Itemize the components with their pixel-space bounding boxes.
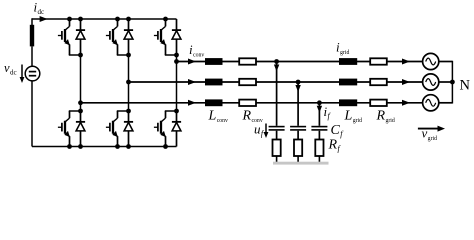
wire left rail mid segment bbox=[31, 46, 33, 66]
wire phase A vertical bbox=[80, 55, 82, 111]
arrow u_f annotation bbox=[264, 124, 269, 139]
node phase A tap bbox=[174, 59, 179, 64]
transistor lower IGBT leg C bbox=[154, 111, 166, 147]
node upper leg B midpoint bbox=[126, 53, 131, 58]
resistor R_conv phase A bbox=[239, 58, 256, 64]
wire left rail upper segment bbox=[31, 18, 33, 25]
wire branch A cap to resistor bbox=[276, 131, 278, 140]
label i_f bbox=[324, 104, 332, 121]
node upper leg A midpoint bbox=[78, 53, 83, 58]
arrow i_dc on top rail bbox=[40, 16, 48, 22]
wire branch B resistor stub bbox=[297, 156, 299, 163]
wire bottom dc rail bbox=[32, 146, 177, 148]
arrow filter current branch A bbox=[274, 65, 279, 72]
capacitor C_f branch B bbox=[290, 126, 306, 131]
capacitor C_f branch C bbox=[311, 126, 327, 131]
wire phase line C bbox=[81, 102, 423, 104]
wire top dc rail bbox=[32, 18, 177, 20]
diode lower freewheeling leg A bbox=[76, 111, 85, 147]
label L_conv bbox=[208, 109, 229, 125]
node filter branch C tap bbox=[317, 100, 322, 105]
label i_grid bbox=[336, 40, 349, 57]
wire filter branch B drop bbox=[297, 82, 299, 126]
inductor L_grid phase B bbox=[339, 79, 357, 86]
wire lower collector jog leg B bbox=[117, 110, 129, 112]
wire phase line B bbox=[129, 81, 423, 83]
diode upper freewheeling leg B bbox=[124, 19, 133, 55]
arrow i_grid phase B bbox=[402, 79, 410, 85]
label R_f bbox=[328, 138, 342, 154]
arrow i_grid phase A bbox=[402, 59, 410, 65]
svg-text:N: N bbox=[460, 78, 471, 94]
resistor R_conv phase B bbox=[239, 79, 256, 85]
label i_conv bbox=[189, 42, 204, 59]
resistor R_f branch C bbox=[315, 140, 323, 157]
node phase B tap bbox=[126, 80, 131, 85]
wire branch C resistor stub bbox=[318, 156, 320, 163]
wire branch B cap to resistor bbox=[297, 131, 299, 140]
wire phase B to neutral bus bbox=[439, 81, 453, 83]
source grid AC phase B bbox=[423, 74, 439, 90]
wire lower collector jog leg C bbox=[165, 110, 177, 112]
node lower leg C rail junctions bbox=[163, 144, 168, 149]
node upper leg B rail junctions bbox=[115, 17, 131, 22]
wire filter branch A drop bbox=[276, 62, 278, 126]
diode lower freewheeling leg B bbox=[124, 111, 133, 147]
transistor upper IGBT leg C bbox=[154, 19, 166, 55]
arrow filter current branch B bbox=[295, 85, 300, 92]
inductor L_conv phase C bbox=[205, 99, 223, 106]
wire phase line A bbox=[177, 61, 423, 63]
node filter branch A tap bbox=[274, 59, 279, 64]
resistor R_grid phase C bbox=[370, 100, 387, 106]
label R_grid bbox=[376, 109, 395, 125]
inductor L_grid phase A bbox=[339, 58, 357, 65]
node upper leg C midpoint bbox=[174, 53, 179, 58]
transistor lower IGBT leg A bbox=[58, 111, 70, 147]
node lower leg A top junction bbox=[78, 109, 83, 114]
wire branch C cap to resistor bbox=[318, 131, 320, 140]
arrow v_dc annotation bbox=[20, 65, 25, 84]
transistor upper IGBT leg A bbox=[58, 19, 70, 55]
wire phase A to neutral bus bbox=[439, 61, 453, 63]
wire phase C vertical bbox=[176, 55, 178, 111]
wire phase B vertical bbox=[128, 55, 130, 111]
label C_f bbox=[331, 123, 345, 139]
arrow filter current branch C bbox=[317, 106, 322, 113]
node lower leg B top junction bbox=[126, 109, 131, 114]
label v_grid bbox=[422, 126, 438, 143]
resistor R_grid phase A bbox=[370, 58, 387, 64]
wire upper emitter jog leg A bbox=[69, 54, 81, 56]
wire phase C to neutral bus bbox=[439, 102, 453, 104]
source Vdc circle bbox=[25, 66, 40, 81]
transistor lower IGBT leg B bbox=[106, 111, 118, 147]
inductor L_conv phase B bbox=[205, 79, 223, 86]
wire neutral bus vertical bbox=[451, 61, 453, 104]
label R_conv bbox=[242, 109, 263, 125]
capacitor C_f branch A bbox=[269, 126, 285, 131]
transistor upper IGBT leg B bbox=[106, 19, 118, 55]
node upper leg A rail junctions bbox=[67, 17, 83, 22]
wire filter branch C drop bbox=[318, 103, 320, 126]
source grid AC phase C bbox=[423, 95, 439, 111]
arrow v_grid annotation bbox=[418, 126, 445, 132]
label i_dc bbox=[34, 0, 45, 16]
wire filter neutral bar bbox=[273, 162, 329, 165]
node lower leg B rail junctions bbox=[115, 144, 131, 149]
node filter branch B tap bbox=[296, 80, 301, 85]
resistor R_f branch B bbox=[294, 140, 302, 157]
inductor L_grid phase C bbox=[339, 99, 357, 106]
arrow i_conv phase A bbox=[188, 59, 196, 65]
label v_dc bbox=[4, 61, 17, 77]
inductor dc-link choke bbox=[30, 25, 34, 47]
diode upper freewheeling leg C bbox=[172, 19, 181, 55]
arrow i_conv phase B bbox=[188, 79, 196, 85]
wire lower collector jog leg A bbox=[69, 110, 81, 112]
source grid AC phase A bbox=[423, 53, 439, 69]
node upper leg C rail junctions bbox=[163, 17, 168, 22]
wire upper emitter jog leg B bbox=[117, 54, 129, 56]
node lower leg A rail junctions bbox=[67, 144, 83, 149]
resistor R_conv phase C bbox=[239, 100, 256, 106]
label u_f bbox=[254, 122, 265, 139]
node phase C tap bbox=[78, 100, 83, 105]
diode upper freewheeling leg A bbox=[76, 19, 85, 55]
arrow i_grid phase C bbox=[402, 100, 410, 106]
inductor L_conv phase A bbox=[205, 58, 223, 65]
node neutral bus junction bbox=[450, 80, 455, 85]
label N bbox=[460, 78, 471, 94]
arrow i_conv phase C bbox=[188, 100, 196, 106]
wire left rail lower segment bbox=[31, 81, 33, 147]
wire branch A resistor stub bbox=[276, 156, 278, 163]
label L_grid bbox=[344, 109, 363, 125]
resistor R_grid phase B bbox=[370, 79, 387, 85]
node lower leg C top junction bbox=[174, 109, 179, 114]
resistor R_f branch A bbox=[273, 140, 281, 157]
wire upper emitter jog leg C bbox=[165, 54, 177, 56]
diode lower freewheeling leg C bbox=[172, 111, 181, 147]
